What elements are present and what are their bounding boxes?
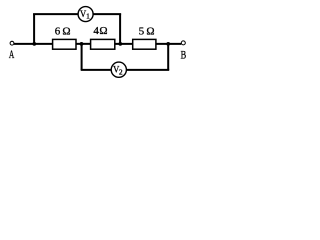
svg-text:1: 1 <box>86 12 90 21</box>
svg-text:5: 5 <box>139 26 145 38</box>
svg-text:Ω: Ω <box>99 25 107 37</box>
svg-text:B: B <box>181 49 187 62</box>
svg-text:A: A <box>9 48 15 61</box>
svg-text:2: 2 <box>119 67 123 76</box>
svg-text:6: 6 <box>55 26 61 38</box>
svg-text:Ω: Ω <box>146 26 154 38</box>
svg-text:Ω: Ω <box>62 26 70 38</box>
